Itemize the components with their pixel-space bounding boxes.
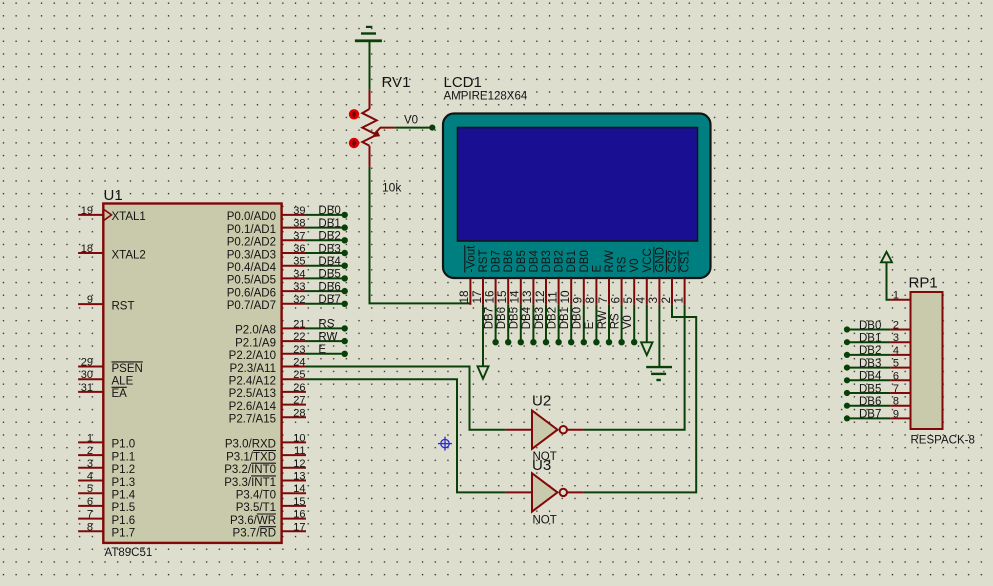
LCD1 pin 13 DB4 — [520, 250, 540, 305]
svg-text:DB2: DB2 — [859, 345, 881, 357]
svg-text:DB4: DB4 — [528, 250, 540, 273]
NOT gate U2 body — [532, 411, 567, 449]
U1 pin 4 P1.3 — [78, 471, 135, 489]
svg-text:P0.3/AD3: P0.3/AD3 — [227, 249, 276, 261]
wire and node DB0 at U1 — [306, 205, 348, 218]
svg-text:P3.0/RXD: P3.0/RXD — [225, 439, 276, 451]
chip U1 AT89C51 body — [103, 204, 281, 543]
svg-text:P2.7/A15: P2.7/A15 — [229, 414, 276, 426]
wire and node E at U1 — [306, 344, 348, 357]
U1 value label AT89C51 — [105, 547, 153, 559]
svg-text:P1.6: P1.6 — [112, 515, 136, 527]
svg-text:V0: V0 — [629, 258, 641, 272]
RP1 pin 5 and node DB3 — [844, 358, 911, 371]
U1 pin 26 P2.5/A13 — [229, 382, 306, 400]
U1 pin 36 P0.3/AD3 — [227, 243, 306, 261]
svg-text:38: 38 — [293, 218, 305, 230]
svg-text:P3.2/INT0: P3.2/INT0 — [224, 464, 276, 476]
svg-text:P3.7/RD: P3.7/RD — [233, 528, 276, 540]
RV1 terminal marker top — [349, 109, 359, 119]
U1 pin 28 P2.7/A15 — [229, 407, 306, 425]
svg-text:7: 7 — [893, 383, 899, 395]
svg-text:DB3: DB3 — [318, 243, 340, 255]
svg-text:3: 3 — [893, 332, 899, 344]
wire and node DB0 below LCD — [572, 305, 587, 346]
RP1 value label RESPACK-8 — [911, 435, 975, 447]
NOT gate U2 input stub — [505, 429, 532, 431]
svg-text:DB0: DB0 — [859, 320, 881, 332]
RV1 reference label — [382, 74, 411, 91]
U1 pin 13 P3.3/INT1 — [224, 471, 306, 489]
svg-text:XTAL1: XTAL1 — [112, 211, 146, 223]
svg-text:DB6: DB6 — [859, 396, 881, 408]
U1 pin 2 P1.1 — [78, 445, 135, 463]
svg-text:RST: RST — [478, 250, 490, 273]
svg-text:1: 1 — [893, 290, 899, 302]
svg-text:DB5: DB5 — [509, 307, 521, 329]
U1 pin 30 ALE — [78, 369, 133, 387]
U2 value label NOT — [533, 451, 557, 463]
wire and node DB7 below LCD — [483, 305, 498, 346]
svg-text:11: 11 — [294, 445, 305, 457]
svg-text:29: 29 — [81, 357, 93, 369]
LCD1 pin 12 DB3 — [533, 250, 553, 305]
U1 pin 6 P1.5 — [78, 496, 135, 514]
RV1 terminal marker bottom — [349, 138, 359, 148]
RP1 pin 9 and node DB7 — [844, 408, 911, 421]
svg-text:P2.5/A13: P2.5/A13 — [229, 388, 276, 400]
svg-text:18: 18 — [81, 243, 93, 255]
RP1 pin 6 and node DB4 — [844, 370, 911, 383]
svg-text:GND: GND — [654, 247, 666, 273]
LCD1 pin 14 DB5 — [508, 250, 528, 305]
svg-text:RS: RS — [318, 319, 334, 331]
RP1 reference label — [909, 275, 938, 292]
svg-text:NOT: NOT — [533, 515, 557, 527]
svg-text:P1.5: P1.5 — [112, 502, 136, 514]
svg-text:9: 9 — [87, 294, 93, 306]
U1 pin 34 P0.5/AD5 — [227, 268, 306, 286]
U1 pin 21 P2.0/A8 — [235, 318, 306, 336]
RP1 pin 4 and node DB2 — [844, 345, 911, 358]
svg-text:DB5: DB5 — [318, 269, 340, 281]
svg-text:P1.3: P1.3 — [112, 477, 136, 489]
RP1 pin 3 and node DB1 — [844, 332, 911, 345]
svg-text:21: 21 — [293, 318, 305, 330]
svg-text:U3: U3 — [532, 457, 551, 474]
svg-text:P1.0: P1.0 — [112, 439, 136, 451]
svg-text:ALE: ALE — [112, 376, 134, 388]
LCD1 pin 16 DB7 — [482, 250, 502, 305]
svg-text:P0.4/AD4: P0.4/AD4 — [227, 262, 277, 274]
svg-text:DB7: DB7 — [491, 250, 503, 272]
svg-text:PSEN: PSEN — [112, 363, 143, 375]
svg-text:P0.7/AD7: P0.7/AD7 — [227, 300, 276, 312]
U3 value label NOT — [533, 515, 557, 527]
wire and node DB3 below LCD — [534, 305, 549, 346]
origin marker — [438, 437, 452, 451]
U1 pin 3 P1.2 — [78, 458, 135, 476]
svg-text:DB4: DB4 — [318, 256, 341, 268]
LCD1 pin 6 RS — [608, 256, 628, 305]
U1 pin 9 RST — [78, 294, 134, 312]
LCD display LCD1 body — [443, 114, 711, 279]
U1 pin 15 P3.5/T1 — [236, 496, 306, 514]
svg-text:DB7: DB7 — [318, 294, 340, 306]
wire and node DB6 at U1 — [306, 281, 348, 294]
svg-text:DB0: DB0 — [572, 307, 584, 329]
svg-text:30: 30 — [81, 369, 93, 381]
wire LCD CS2 (pin2) to U3 output — [583, 305, 696, 493]
LCD1 pin 8 E — [583, 265, 603, 305]
NOT gate U3 output stub — [567, 491, 583, 493]
svg-text:P3.4/T0: P3.4/T0 — [236, 490, 276, 502]
svg-text:DB7: DB7 — [859, 409, 881, 421]
svg-text:DB1: DB1 — [859, 333, 881, 345]
U1 pin 19 XTAL1 — [78, 205, 146, 223]
svg-text:19: 19 — [81, 205, 93, 217]
svg-text:36: 36 — [293, 243, 305, 255]
svg-text:-Vout: -Vout — [465, 245, 477, 273]
U1 pin 17 P3.7/RD — [233, 521, 306, 539]
wire and node DB1 below LCD — [559, 305, 574, 346]
svg-text:32: 32 — [293, 294, 305, 306]
svg-text:P1.7: P1.7 — [112, 528, 136, 540]
U1 pin 7 P1.6 — [78, 509, 135, 527]
svg-text:P0.2/AD2: P0.2/AD2 — [227, 237, 276, 249]
svg-text:P2.0/A8: P2.0/A8 — [235, 325, 276, 337]
wire and node DB7 at U1 — [306, 294, 348, 307]
svg-text:31: 31 — [81, 382, 93, 394]
svg-text:P1.1: P1.1 — [112, 451, 136, 463]
svg-text:1: 1 — [87, 432, 93, 444]
svg-text:DB1: DB1 — [566, 250, 578, 272]
U1 reference label — [104, 187, 123, 204]
svg-text:P3.1/TXD: P3.1/TXD — [226, 451, 276, 463]
U1 pin 18 XTAL2 — [78, 243, 146, 261]
svg-text:7: 7 — [87, 509, 93, 521]
wire and node E below LCD — [584, 305, 599, 346]
svg-text:DB2: DB2 — [554, 250, 566, 272]
svg-text:P2.2/A10: P2.2/A10 — [229, 350, 276, 362]
svg-text:DB4: DB4 — [859, 371, 882, 383]
wire and node RS at U1 — [306, 319, 348, 332]
svg-text:DB1: DB1 — [559, 307, 571, 329]
U1 pin 1 P1.0 — [78, 432, 135, 450]
svg-text:U1: U1 — [104, 187, 123, 204]
LCD1 pin 11 DB2 — [545, 250, 565, 305]
wire and node RS below LCD — [609, 305, 624, 346]
svg-text:5: 5 — [87, 483, 93, 495]
svg-text:8: 8 — [87, 521, 93, 533]
U1 pin 31 EA — [78, 382, 127, 400]
node V0 terminal — [404, 115, 435, 131]
svg-text:35: 35 — [293, 256, 305, 268]
svg-text:P2.6/A14: P2.6/A14 — [229, 401, 277, 413]
U1 pin 33 P0.6/AD6 — [227, 281, 306, 299]
wire power to RV1 top — [369, 41, 371, 89]
wire U1 pin25 P2.4/A12 to U3 input — [306, 379, 505, 492]
wire and node DB4 at U1 — [306, 256, 348, 269]
NOT gate U3 input stub — [505, 491, 532, 493]
svg-text:RW: RW — [597, 310, 609, 329]
svg-text:16: 16 — [293, 509, 305, 521]
svg-text:27: 27 — [293, 395, 305, 407]
svg-text:3: 3 — [87, 458, 93, 470]
LCD1 pin 18 -Vout — [457, 245, 477, 305]
svg-text:DB3: DB3 — [534, 307, 546, 329]
svg-text:E: E — [584, 321, 596, 329]
U2 reference label — [532, 393, 551, 410]
LCD1 pin 7 R/W — [596, 250, 616, 305]
U1 pin 23 P2.2/A10 — [229, 344, 306, 362]
U1 pin 16 P3.6/WR — [230, 509, 306, 527]
wire and node DB4 below LCD — [521, 305, 536, 346]
wire LCD RST (pin17) to input terminal — [478, 305, 489, 379]
U1 pin 37 P0.2/AD2 — [227, 230, 306, 248]
svg-text:2: 2 — [87, 445, 93, 457]
NOT gate U2 output stub — [567, 429, 583, 431]
svg-text:LCD1: LCD1 — [444, 74, 482, 91]
U1 pin 14 P3.4/T0 — [236, 483, 306, 501]
LCD1 pin 9 DB0 — [571, 250, 591, 305]
svg-text:10k: 10k — [382, 180, 402, 194]
svg-text:U2: U2 — [532, 393, 551, 410]
svg-text:14: 14 — [293, 483, 305, 495]
svg-text:DB6: DB6 — [318, 281, 340, 293]
wire and node DB3 at U1 — [306, 243, 348, 256]
svg-text:17: 17 — [293, 521, 305, 533]
U1 pin 32 P0.7/AD7 — [227, 294, 306, 312]
svg-text:DB0: DB0 — [318, 205, 340, 217]
svg-text:12: 12 — [293, 458, 305, 470]
LCD1 pin 1 CS1 — [671, 250, 691, 305]
U1 pin 11 P3.1/TXD — [226, 445, 306, 463]
svg-text:39: 39 — [293, 205, 305, 217]
ground symbol — [646, 367, 672, 380]
svg-text:CS1: CS1 — [680, 250, 692, 272]
svg-text:6: 6 — [87, 496, 93, 508]
U1 pin 35 P0.4/AD4 — [227, 256, 306, 274]
svg-text:DB7: DB7 — [483, 307, 495, 329]
U1 pin 27 P2.6/A14 — [229, 395, 306, 413]
svg-text:E: E — [318, 344, 326, 356]
wire and node DB6 below LCD — [496, 305, 511, 346]
LCD1 pin 2 CS2 — [659, 250, 679, 305]
RV1 value label 10k — [382, 180, 402, 194]
svg-text:10: 10 — [293, 432, 305, 444]
wire and node RW at U1 — [306, 331, 348, 344]
RP1 pin 7 and node DB5 — [844, 383, 911, 396]
U1 pin 10 P3.0/RXD — [225, 432, 306, 450]
wire LCD CS1 (pin1) to U2 output — [583, 305, 684, 430]
resistor RV1 (potentiometer) — [362, 89, 394, 167]
svg-text:V0: V0 — [404, 115, 418, 127]
svg-text:RW: RW — [318, 331, 337, 343]
LCD1 pin 15 DB6 — [495, 250, 515, 305]
svg-text:AT89C51: AT89C51 — [105, 547, 153, 559]
NOT gate U3 body — [532, 473, 567, 511]
svg-text:RS: RS — [617, 256, 629, 272]
LCD1 pin 4 VCC — [634, 248, 654, 305]
svg-text:DB5: DB5 — [859, 383, 881, 395]
wire and node DB5 below LCD — [509, 305, 524, 346]
svg-text:6: 6 — [893, 370, 899, 382]
svg-text:DB3: DB3 — [859, 358, 881, 370]
svg-text:XTAL2: XTAL2 — [112, 249, 146, 261]
wire RV1 wiper to node V0 — [395, 127, 432, 129]
U1 pin 24 P2.3/A11 — [230, 357, 306, 375]
svg-text:P0.0/AD0: P0.0/AD0 — [227, 211, 276, 223]
wire RV1 bottom to LCD pin 18 — [370, 167, 471, 304]
wire and node RW below LCD — [597, 305, 612, 346]
svg-text:2: 2 — [893, 320, 899, 332]
svg-text:P3.6/WR: P3.6/WR — [230, 515, 276, 527]
wire power to RP1 pin 1 — [887, 263, 891, 300]
RP1 pin 1 — [890, 290, 910, 302]
svg-text:E: E — [591, 265, 603, 273]
svg-text:DB6: DB6 — [496, 307, 508, 329]
svg-text:DB3: DB3 — [541, 250, 553, 272]
svg-text:DB5: DB5 — [516, 250, 528, 272]
svg-text:22: 22 — [293, 331, 305, 343]
svg-text:R/W: R/W — [604, 250, 616, 273]
svg-text:CS2: CS2 — [667, 250, 679, 272]
svg-text:13: 13 — [293, 471, 305, 483]
LCD1 pin 17 RST — [470, 250, 490, 305]
LCD1 pin 10 DB1 — [558, 250, 578, 305]
svg-text:28: 28 — [293, 407, 305, 419]
power terminal above RP1 — [881, 252, 892, 262]
svg-text:P3.5/T1: P3.5/T1 — [236, 502, 276, 514]
svg-text:P0.5/AD5: P0.5/AD5 — [227, 275, 276, 287]
wire and node DB5 at U1 — [306, 269, 348, 282]
svg-text:EA: EA — [112, 388, 128, 400]
LCD1 pin 5 V0 — [621, 258, 641, 304]
U1 pin 38 P0.1/AD1 — [227, 218, 306, 236]
LCD1 value label AMPIRE128X64 — [444, 91, 528, 103]
U1 pin 12 P3.2/INT0 — [224, 458, 306, 476]
U1 pin 22 P2.1/A9 — [235, 331, 306, 349]
LCD1 reference label — [444, 74, 482, 91]
svg-text:P3.3/INT1: P3.3/INT1 — [224, 477, 276, 489]
svg-text:24: 24 — [293, 357, 305, 369]
U3 reference label — [532, 457, 551, 474]
wire and node V0 below LCD — [622, 305, 637, 346]
svg-text:VCC: VCC — [642, 248, 654, 272]
svg-text:1: 1 — [671, 297, 685, 304]
svg-text:15: 15 — [293, 496, 305, 508]
svg-text:23: 23 — [293, 344, 305, 356]
svg-text:DB1: DB1 — [318, 218, 340, 230]
svg-text:V0: V0 — [622, 315, 634, 329]
wire LCD VCC (pin4) to power terminal arrow — [641, 305, 652, 355]
svg-text:P0.6/AD6: P0.6/AD6 — [227, 287, 276, 299]
svg-text:P2.1/A9: P2.1/A9 — [235, 337, 276, 349]
svg-text:DB2: DB2 — [546, 307, 558, 329]
svg-text:RESPACK-8: RESPACK-8 — [911, 435, 975, 447]
RP1 pin 2 and node DB0 — [844, 320, 911, 333]
svg-text:DB0: DB0 — [579, 250, 591, 272]
svg-text:26: 26 — [293, 382, 305, 394]
LCD1 screen — [458, 128, 698, 242]
power terminal above RV1 — [355, 26, 382, 42]
svg-text:RP1: RP1 — [909, 275, 938, 292]
svg-text:P2.3/A11: P2.3/A11 — [230, 363, 276, 375]
svg-text:P1.4: P1.4 — [112, 490, 136, 502]
svg-text:P2.4/A12: P2.4/A12 — [229, 376, 276, 388]
U1 pin 39 P0.0/AD0 — [227, 205, 306, 223]
svg-text:37: 37 — [293, 230, 305, 242]
svg-text:RV1: RV1 — [382, 74, 411, 91]
wire U1 pin24 P2.3/A11 to U2 input — [306, 367, 505, 430]
LCD1 pin 3 GND — [646, 247, 666, 305]
svg-text:9: 9 — [893, 408, 899, 420]
U1 pin 25 P2.4/A12 — [229, 369, 306, 387]
svg-text:5: 5 — [893, 358, 899, 370]
svg-text:RST: RST — [112, 300, 135, 312]
wire LCD GND (pin3) to ground — [658, 305, 660, 366]
svg-text:P0.1/AD1: P0.1/AD1 — [227, 224, 276, 236]
U1 pin 8 P1.7 — [78, 521, 135, 539]
wire and node DB1 at U1 — [306, 218, 348, 231]
resistor pack RP1 body — [911, 292, 943, 429]
svg-text:8: 8 — [893, 396, 899, 408]
svg-text:DB4: DB4 — [521, 306, 533, 329]
svg-text:25: 25 — [293, 369, 305, 381]
svg-text:33: 33 — [293, 281, 305, 293]
svg-text:4: 4 — [87, 471, 93, 483]
svg-text:P1.2: P1.2 — [112, 464, 136, 476]
svg-text:34: 34 — [293, 268, 305, 280]
U1 pin 29 PSEN — [78, 357, 143, 375]
svg-text:AMPIRE128X64: AMPIRE128X64 — [444, 91, 528, 103]
wire and node DB2 below LCD — [546, 305, 561, 346]
svg-text:RS: RS — [609, 313, 621, 329]
svg-text:4: 4 — [893, 345, 899, 357]
wire and node DB2 at U1 — [306, 231, 348, 244]
U1 pin 5 P1.4 — [78, 483, 136, 501]
RP1 pin 8 and node DB6 — [844, 396, 911, 409]
svg-text:DB6: DB6 — [503, 250, 515, 272]
svg-text:DB2: DB2 — [318, 231, 340, 243]
